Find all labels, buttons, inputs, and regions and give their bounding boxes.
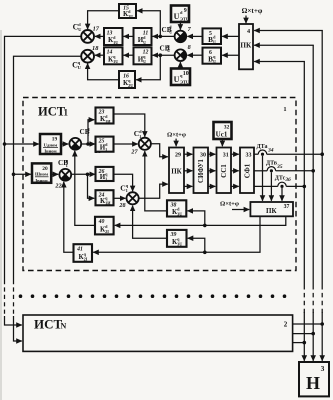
wire block 37 q-output to blocks 39 and 41 [93,216,260,252]
svg-text:27: 27 [130,149,138,156]
wire B from multiplier 18 output down left side to ИСТN input [14,56,82,280]
wire block 9 output to multiplier 7 top [179,22,181,30]
wire multiplier 8 output to block 12 [153,54,175,56]
svg-text:33: 33 [246,153,252,159]
junction ISTN phase a [320,322,324,326]
svg-text:2U: 2U [128,14,133,19]
dashed boundary of current source IST1 [23,98,296,271]
wire B branch into block 20 [14,173,31,175]
phase c line with current sensor DTc 36 [254,185,278,187]
svg-text:35: 35 [276,164,283,170]
junction ISTN phase b [311,332,315,336]
block 37 PK current converter [250,202,293,216]
block 11 IU-d [134,28,152,45]
wire multiplier 28 output to block 29 lower input [139,184,168,198]
wire block 4 output q to block 6 [222,54,239,56]
block 24 K1I-q [96,190,114,205]
block 33 SF1 [240,148,254,194]
svg-text:40: 40 [98,219,105,225]
wire block 31 to block 33 phase c [231,185,239,187]
wire block 12 output to block 14 [124,54,134,56]
wire block 29 to block 30 phase b [184,170,192,172]
svg-text:N: N [61,321,67,330]
block 32 Uc1 [214,122,232,139]
wire block 31 to block 33 phase b [231,170,239,172]
svg-text:ДТс: ДТс [275,175,286,181]
block 23 K1I-d [96,108,114,124]
multiplier 21 [69,138,81,150]
wire block 15 output to multiplier 17 top [88,11,119,29]
wire ISTN output phase a to bus [293,323,323,325]
phase a line with current sensor DTa 34 [254,153,258,155]
svg-text:U: U [213,59,216,64]
svg-text:37: 37 [284,204,290,210]
multiplier 22 [59,169,71,181]
block 29 PK converter [169,148,184,194]
svg-text:1: 1 [105,177,107,182]
svg-text:Ω×t+φ: Ω×t+φ [220,200,239,207]
svg-text:1: 1 [126,188,128,193]
multiplier 18 [81,50,94,63]
bus phase A top wire into block 4 [254,30,322,33]
block 14 K1U-q [104,47,123,64]
input Omega-t-phi arrow into block 4 top [245,16,247,24]
svg-text:36: 36 [284,177,291,183]
wire ISTN output phase c to bus [293,342,305,344]
svg-text:U: U [174,75,180,84]
bus phase B vertical line [312,45,314,285]
svg-text:3U: 3U [177,212,182,217]
block 10 U-ETU-q [171,69,190,86]
svg-text:Iвном: Iвном [44,149,56,154]
wire sensor DTa output down to block 37 [262,156,264,201]
svg-text:СФ1: СФ1 [244,163,252,178]
block 30 SIFU1 [194,148,209,194]
svg-text:1: 1 [66,163,68,168]
wire sensor DTb output down to block 37 [270,172,272,200]
block 5 BU-d [203,28,222,44]
block 26 I1-q [96,167,114,181]
junction node on multiplier 8 output [159,53,163,57]
wire block 24 output to multiplier 28 [114,197,126,199]
wire block 32 output into block 31 top [221,139,223,146]
block 20 setpoint [32,163,51,182]
wire branch up to block 15 input [137,11,160,37]
wire block 16 output to multiplier 18 bottom [88,64,119,80]
svg-text:31: 31 [223,153,229,159]
svg-text:ДТа: ДТа [257,144,268,150]
page edge artifact [0,30,2,400]
svg-text:ПК: ПК [240,42,252,50]
bus phase C vertical line [303,62,305,286]
block 4 PK coordinate converter [239,24,253,69]
svg-text:18: 18 [92,45,99,52]
multiplier 28 [127,192,139,204]
junction phase c to bus [303,185,307,189]
svg-text:1U: 1U [113,59,118,64]
block 12 IU-q [134,47,152,64]
junction on d feedback line [203,224,207,228]
wire block 25 output to multiplier 27 [114,143,138,145]
wire block 13 output to multiplier 17 [95,35,104,37]
svg-text:10: 10 [183,71,189,77]
wire block 10 output to multiplier 8 bottom [179,62,181,68]
svg-text:17: 17 [93,25,100,32]
svg-text:ИСТ: ИСТ [34,316,63,331]
block 40 K2I-d [95,217,114,235]
wire block 11 output to block 13 [124,35,134,37]
wire block 20 output to multiplier 22 [51,173,58,175]
wire block 26 output to multiplier 28 top [114,174,133,191]
block 15 K2U-d [119,4,136,18]
wire sensor DTc output down to block 37 [281,188,283,201]
svg-text:U: U [143,59,146,64]
wire block 30 to block 31 phase a [208,153,215,155]
svg-text:U: U [213,40,216,45]
block 31 SS1 [217,148,232,194]
svg-text:ИСТ: ИСТ [38,105,66,119]
svg-text:ПК: ПК [171,168,182,176]
svg-text:СИФУ1: СИФУ1 [198,158,205,183]
wire block 41 output to multiplier 22 bottom [64,182,74,252]
block 3 load N [299,362,329,396]
dotted continuation row [19,294,287,298]
wire block 19 output to multiplier 21 [61,143,68,145]
wire ISTN output phase b to bus [293,333,314,335]
svg-text:28: 28 [118,202,125,209]
wire Omega input into block 29 top [175,139,177,147]
junction phase a to bus [320,152,324,156]
wire block 37 d-output to blocks 38 and 40 [115,216,286,225]
svg-text:1И: 1И [105,201,111,206]
block 19 setpoint Udnom-Ivnom [40,134,61,154]
junction ISTN phase c [303,341,307,345]
wire Omega input into block 37 [232,209,249,211]
svg-text:ЭТU: ЭТU [180,16,190,21]
svg-text:Iвном: Iвном [35,178,47,183]
wire block 14 output to multiplier 18 [95,54,104,56]
svg-text:2I: 2I [84,256,88,261]
wire block 31 to block 33 phase a [231,153,239,155]
svg-text:1U: 1U [113,40,118,45]
block 41 K2I-q [74,244,93,262]
wire block 5 output to multiplier 7 [187,35,202,37]
svg-text:3: 3 [321,364,325,373]
block 25 I1-d [96,137,114,152]
svg-text:Uдном: Uдном [44,142,58,147]
svg-text:1И: 1И [105,119,111,124]
svg-text:U: U [143,40,146,45]
junction node on multiplier 7 output [159,35,163,39]
svg-text:2U: 2U [128,83,133,88]
block 16 K2U-q [119,71,135,88]
wire A branch into block 19 [5,143,39,145]
wire block 39 output to multiplier 28 bottom [133,206,167,239]
wire block 29 to block 30 phase a [184,153,192,155]
svg-text:Ω×t+φ: Ω×t+φ [167,132,186,139]
svg-text:1: 1 [283,106,286,113]
svg-text:29: 29 [175,153,181,159]
svg-text:22: 22 [54,182,61,189]
svg-text:ЭТU: ЭТU [180,79,190,84]
wire block 40 output to multiplier 21 bottom [75,151,95,226]
wire block 6 output to multiplier 8 [187,54,202,56]
phase b line with current sensor DTb 35 [254,170,267,172]
bus phase C top wire into block 4 [254,61,304,64]
junction on wire B [12,173,16,177]
svg-text:41: 41 [76,247,83,253]
multiplier 17 [81,30,94,43]
block 13 K1U-d [104,28,123,45]
multiplier 8 [175,49,187,61]
svg-text:8: 8 [188,44,191,51]
svg-text:1: 1 [105,147,107,152]
svg-text:2I: 2I [105,229,109,234]
junction node after multiplier 22 [86,173,90,177]
wire multiplier 21 output junction to blocks 23 and 25 [81,143,95,145]
svg-text:2: 2 [284,321,288,329]
svg-text:9: 9 [184,8,187,14]
svg-text:1: 1 [64,108,69,118]
svg-text:34: 34 [267,148,274,154]
wire block 30 to block 31 phase c [208,185,215,187]
wire block 4 output d to block 5 [222,35,239,37]
block 9 U-ETU-d [171,6,189,23]
svg-text:30: 30 [200,153,206,159]
wire A from multiplier 17 output down left side to ИСТN input [5,36,82,280]
bus phase B top wire into block 4 [254,44,313,47]
multiplier 27 [139,138,151,150]
svg-text:U: U [174,12,180,21]
svg-text:Шном: Шном [35,172,48,177]
svg-text:ПК: ПК [266,207,277,215]
junction on q feedback line [203,251,207,255]
svg-text:Н: Н [306,373,320,393]
block 39 K3U-q [167,230,187,247]
svg-text:Ω×t+φ: Ω×t+φ [242,7,263,15]
wire multiplier 7 output to block 11 [153,35,175,37]
wire block 29 to block 30 phase c [184,185,192,187]
svg-text:1: 1 [139,134,141,139]
block 38 K3U-d [167,200,186,216]
svg-text:СС1: СС1 [220,164,228,178]
wire multiplier 22 output junction to blocks 26 and 24 [71,173,95,175]
svg-text:Uc1: Uc1 [216,130,228,138]
junction on wire A [3,142,7,146]
wire branch down to block 16 input [136,55,160,80]
block 6 BU-q [203,48,222,64]
svg-text:3U: 3U [177,241,182,246]
junction phase b to bus [311,169,315,173]
block 2 current source ISTN [23,315,293,351]
wire block 30 to block 31 phase b [208,170,215,172]
wire block 38 output to multiplier 27 bottom [145,151,167,211]
bus phase A vertical line [321,31,323,286]
svg-text:4: 4 [247,28,250,35]
wire block 23 output to multiplier 27 top [114,114,145,137]
multiplier 7 [175,31,187,43]
junction node after multiplier 21 [86,142,90,146]
wire multiplier 27 output to block 29 upper input [151,144,168,157]
